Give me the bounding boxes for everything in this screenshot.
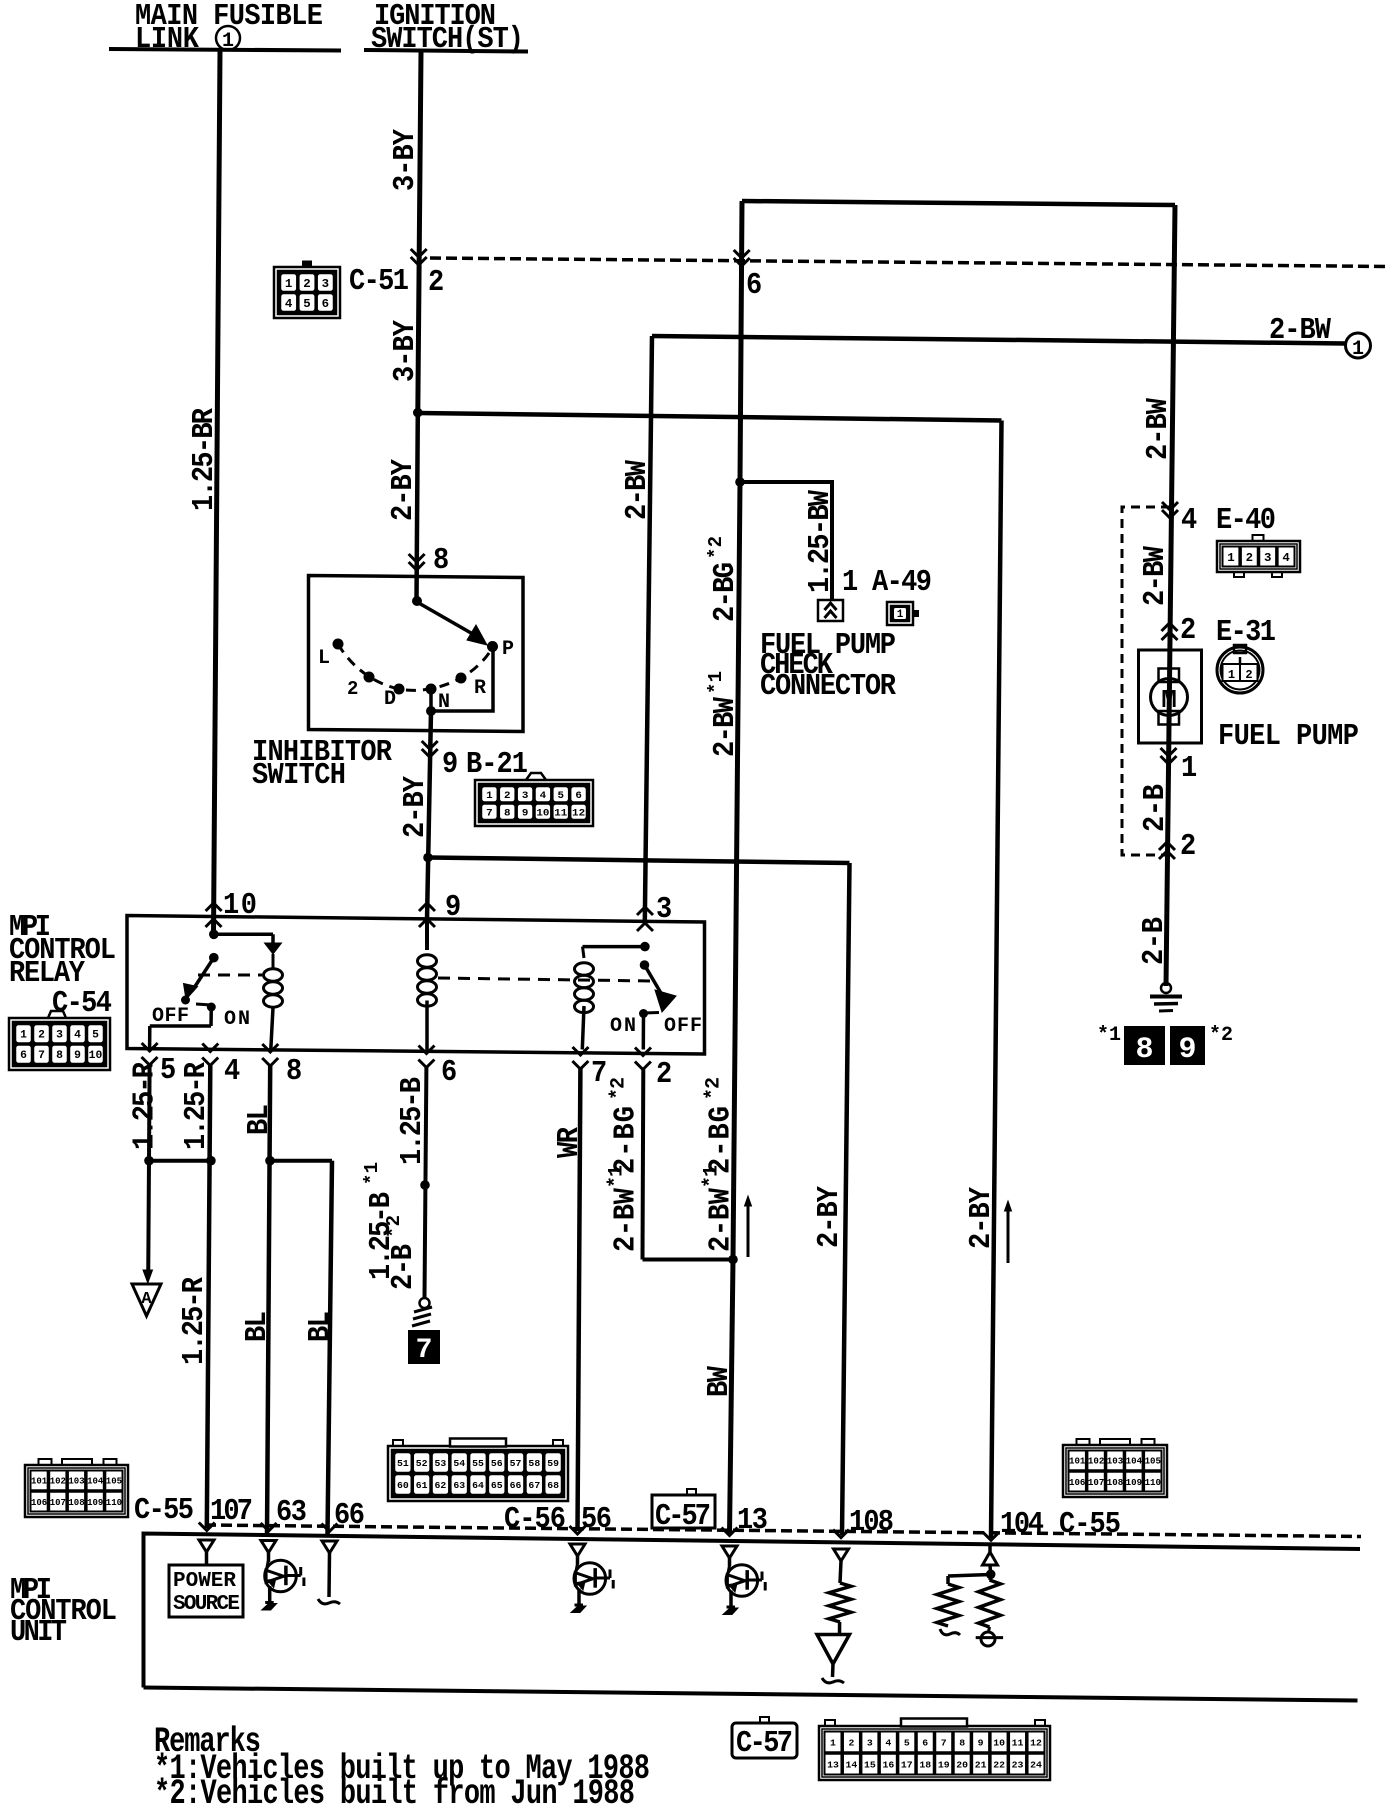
svg-text:8: 8 bbox=[433, 543, 449, 578]
inhibitor contact 2 bbox=[364, 672, 375, 683]
svg-text:2-BG: 2-BG bbox=[703, 1106, 738, 1174]
wire 108 comparator out bbox=[831, 1664, 835, 1677]
ECU resistor at 108 bbox=[829, 1583, 851, 1622]
dashed ECU boundary line bbox=[205, 1525, 1361, 1537]
terminal 1 circled bbox=[1346, 333, 1371, 358]
grounding point 9 black box bbox=[1170, 1026, 1205, 1065]
connector E-31 icon bbox=[1217, 647, 1263, 693]
svg-text:68: 68 bbox=[547, 1480, 559, 1491]
svg-text:1: 1 bbox=[830, 1737, 836, 1748]
svg-text:2-BW: 2-BW bbox=[1269, 313, 1332, 348]
ECU input triangle 13 bbox=[722, 1546, 737, 1558]
node relay switch1 common bbox=[209, 953, 219, 963]
svg-text:107: 107 bbox=[50, 1498, 66, 1508]
dashed fuel pump assembly boundary bbox=[1122, 507, 1170, 855]
svg-text:2: 2 bbox=[656, 1057, 672, 1092]
svg-text:108: 108 bbox=[1107, 1478, 1123, 1488]
relay linkage dashed left bbox=[198, 974, 262, 977]
svg-text:2-B: 2-B bbox=[386, 1244, 421, 1290]
svg-text:5: 5 bbox=[557, 790, 564, 802]
svg-text:SOURCE: SOURCE bbox=[173, 1593, 240, 1616]
inhibitor switch common pivot bbox=[412, 596, 422, 606]
svg-text:105: 105 bbox=[106, 1477, 122, 1487]
ECU 108 hook bbox=[822, 1678, 844, 1683]
svg-text:12: 12 bbox=[572, 808, 585, 820]
wire BW main drop (pin 6 of C-51 to ECU pin 13) bbox=[730, 201, 743, 1534]
svg-text:E-40: E-40 bbox=[1216, 503, 1276, 538]
wire 1.25-B pin 6 to ground 7 bbox=[425, 1068, 427, 1299]
wire 66 stub bbox=[327, 1553, 331, 1597]
wire fuel pump feed vertical bbox=[1166, 205, 1175, 986]
svg-text:1: 1 bbox=[285, 277, 292, 291]
ECU transistor at 63 bbox=[265, 1560, 297, 1592]
svg-text:*2: *2 bbox=[702, 1077, 725, 1100]
svg-text:10: 10 bbox=[223, 888, 257, 923]
inhibitor contact R bbox=[456, 673, 467, 684]
svg-text:19: 19 bbox=[938, 1760, 950, 1771]
svg-text:59: 59 bbox=[547, 1458, 559, 1469]
svg-text:*1: *1 bbox=[361, 1162, 383, 1185]
svg-text:107: 107 bbox=[210, 1494, 253, 1529]
wire 1.25-BR from main fusible link to relay pin 10 bbox=[214, 51, 221, 934]
svg-text:2-BG: 2-BG bbox=[708, 562, 743, 622]
svg-text:2: 2 bbox=[428, 265, 444, 300]
inhibitor contact L bbox=[333, 639, 344, 650]
svg-text:14: 14 bbox=[846, 1760, 858, 1771]
svg-text:*2:Vehicles built from Jun 198: *2:Vehicles built from Jun 1988 bbox=[154, 1775, 635, 1808]
svg-text:2-BW: 2-BW bbox=[1138, 545, 1173, 606]
wire 1.25-R pin 4 to ECU 107 bbox=[207, 1066, 211, 1529]
svg-text:1.25-R: 1.25-R bbox=[179, 1061, 214, 1150]
wire BL pin 8 to ECU 63 bbox=[267, 1066, 270, 1534]
svg-text:6: 6 bbox=[322, 297, 329, 311]
MPI control relay box bbox=[127, 916, 705, 1055]
svg-text:A: A bbox=[141, 1290, 152, 1309]
relay suppression diode bbox=[265, 943, 282, 954]
svg-text:18: 18 bbox=[919, 1760, 931, 1771]
svg-text:9: 9 bbox=[442, 747, 458, 782]
svg-text:4: 4 bbox=[285, 297, 292, 311]
node junction ignition/2-BY bbox=[413, 408, 423, 418]
relay coil centre (pins 9-6) bbox=[425, 920, 429, 950]
ground 7 terminal circle bbox=[420, 1298, 430, 1308]
node relay junction pin3 bbox=[640, 942, 650, 952]
connector C-51 pass-through arrow pin 2 bbox=[411, 249, 427, 257]
arrow ECU pin 56 bbox=[570, 1526, 586, 1534]
svg-text:57: 57 bbox=[510, 1458, 522, 1469]
svg-text:BL: BL bbox=[242, 1104, 277, 1135]
svg-text:2-BW: 2-BW bbox=[708, 696, 743, 757]
svg-text:1: 1 bbox=[1352, 338, 1364, 361]
svg-text:103: 103 bbox=[1107, 1457, 1123, 1467]
arrow relay pin 7 bbox=[573, 1047, 589, 1055]
ground arrow into triangle A bbox=[143, 1270, 153, 1283]
arrow ECU pin 104 bbox=[983, 1532, 999, 1540]
connector C-57 24-pin icon bbox=[819, 1726, 1050, 1780]
svg-text:24: 24 bbox=[1030, 1760, 1042, 1771]
wire link pins 5-4 bbox=[149, 1159, 211, 1163]
svg-text:108: 108 bbox=[68, 1498, 84, 1508]
svg-text:3: 3 bbox=[867, 1737, 873, 1748]
wire bridge above dashed boundary bbox=[742, 201, 1175, 205]
connector E-40 icon bbox=[1217, 541, 1300, 572]
wire 108 resistor to comparator bbox=[838, 1622, 842, 1635]
svg-text:2: 2 bbox=[848, 1737, 854, 1748]
svg-text:22: 22 bbox=[993, 1760, 1005, 1771]
svg-text:60: 60 bbox=[397, 1480, 409, 1491]
node junction pin5/pin4 link bbox=[144, 1156, 154, 1166]
node junction pin2/BW bbox=[728, 1255, 738, 1265]
svg-text:2: 2 bbox=[303, 277, 310, 291]
fuel pump check connector terminal bbox=[818, 600, 843, 621]
svg-text:2-BY: 2-BY bbox=[398, 775, 433, 838]
svg-text:8: 8 bbox=[286, 1054, 302, 1089]
svg-text:105: 105 bbox=[1145, 1457, 1161, 1467]
svg-text:POWER: POWER bbox=[173, 1570, 236, 1593]
svg-text:51: 51 bbox=[397, 1458, 409, 1469]
svg-text:55: 55 bbox=[472, 1458, 484, 1469]
svg-text:C-56: C-56 bbox=[504, 1502, 566, 1537]
arrow relay pin 10 bbox=[206, 903, 222, 911]
svg-text:101: 101 bbox=[1069, 1457, 1086, 1467]
inhibitor contact N bbox=[426, 684, 437, 695]
svg-text:104: 104 bbox=[87, 1477, 104, 1487]
svg-text:OFF: OFF bbox=[664, 1015, 702, 1038]
svg-text:1: 1 bbox=[897, 609, 904, 621]
svg-text:5: 5 bbox=[303, 297, 310, 311]
relay coil left (pins 10-8) bbox=[264, 969, 283, 981]
ECU 66 hook bbox=[318, 1599, 340, 1604]
svg-text:2-BG: 2-BG bbox=[608, 1106, 643, 1174]
svg-text:3-BY: 3-BY bbox=[388, 319, 423, 382]
arrow ECU pin 13 bbox=[722, 1528, 738, 1536]
svg-text:8: 8 bbox=[56, 1050, 63, 1062]
relay switch1 ON contact bbox=[207, 1003, 216, 1012]
svg-text:4: 4 bbox=[224, 1054, 240, 1089]
svg-text:*1: *1 bbox=[1097, 1024, 1121, 1047]
arrow at pump boundary pin 2 bbox=[1159, 851, 1175, 859]
svg-text:6: 6 bbox=[441, 1055, 457, 1090]
node junction 2-BY / horizontal to 108 bbox=[423, 853, 433, 863]
svg-text:52: 52 bbox=[416, 1458, 428, 1469]
svg-text:BL: BL bbox=[240, 1311, 275, 1342]
svg-text:3: 3 bbox=[656, 892, 672, 927]
svg-text:BW: BW bbox=[702, 1365, 737, 1397]
svg-text:C-51: C-51 bbox=[349, 264, 409, 299]
svg-text:104: 104 bbox=[1126, 1457, 1143, 1467]
wire 104 resistor to sensor circle bbox=[989, 1627, 990, 1632]
svg-text:11: 11 bbox=[1012, 1737, 1024, 1748]
arrow relay pin 6 bbox=[419, 1046, 435, 1054]
svg-text:61: 61 bbox=[416, 1480, 428, 1491]
svg-text:65: 65 bbox=[491, 1480, 503, 1491]
svg-text:66: 66 bbox=[334, 1498, 365, 1533]
svg-text:2: 2 bbox=[504, 790, 511, 802]
node: main fusible link number 1 circled bbox=[216, 26, 240, 50]
ECU resistor at 104 bbox=[988, 1574, 992, 1580]
svg-text:ON: ON bbox=[224, 1008, 250, 1031]
ECU output triangle 104 bbox=[988, 1545, 992, 1552]
svg-text:SWITCH: SWITCH bbox=[252, 758, 346, 793]
inhibitor switch blade to P bbox=[417, 602, 478, 637]
wire switch2 ON to pin 2 bbox=[642, 1014, 646, 1050]
svg-text:ON: ON bbox=[610, 1015, 636, 1038]
wire branch to fuel pump check connector bbox=[740, 482, 832, 600]
wire pin3 junction to coil right bbox=[583, 945, 645, 949]
svg-text:*2: *2 bbox=[607, 1077, 630, 1100]
svg-text:D: D bbox=[384, 688, 396, 711]
svg-text:2-BY: 2-BY bbox=[964, 1186, 999, 1249]
node junction pin4 link bbox=[206, 1156, 216, 1166]
svg-text:16: 16 bbox=[882, 1760, 894, 1771]
svg-text:1: 1 bbox=[1181, 751, 1197, 786]
svg-text:4: 4 bbox=[1181, 503, 1197, 538]
svg-text:109: 109 bbox=[87, 1498, 103, 1508]
wire 108 to resistor bbox=[840, 1561, 841, 1583]
wire 2-BY vertical drop to ECU pin 104 bbox=[991, 421, 1002, 1539]
svg-text:106: 106 bbox=[1069, 1478, 1085, 1488]
wire 2-BY inhibitor to relay pin 9 bbox=[427, 711, 431, 920]
wire 3-BY ignition switch to junction bbox=[418, 52, 421, 413]
svg-text:15: 15 bbox=[864, 1760, 876, 1771]
wire N contact to output bbox=[429, 688, 433, 711]
relay coil right (pins 3-7) bbox=[575, 963, 594, 975]
svg-text:106: 106 bbox=[31, 1498, 47, 1508]
svg-text:1: 1 bbox=[842, 565, 858, 600]
svg-text:107: 107 bbox=[1088, 1478, 1104, 1488]
svg-text:5: 5 bbox=[92, 1030, 99, 1042]
svg-text:9: 9 bbox=[522, 808, 529, 820]
arrow out of pump pin 1 bbox=[1161, 748, 1177, 756]
svg-text:17: 17 bbox=[901, 1760, 913, 1771]
svg-text:11: 11 bbox=[554, 808, 567, 820]
arrow relay pin 8 bbox=[262, 1044, 278, 1052]
svg-text:13: 13 bbox=[827, 1760, 839, 1771]
arrow ECU pin 108 bbox=[833, 1530, 849, 1538]
direction arrow on BW wire bbox=[747, 1205, 750, 1257]
svg-text:WR: WR bbox=[552, 1126, 587, 1158]
svg-text:3: 3 bbox=[1264, 551, 1271, 565]
svg-text:FUEL PUMP: FUEL PUMP bbox=[1218, 719, 1359, 754]
bus bar under MAIN FUSIBLE LINK bbox=[109, 49, 341, 51]
svg-text:20: 20 bbox=[956, 1760, 968, 1771]
ECU resistor left of 104 bbox=[946, 1576, 950, 1584]
svg-text:63: 63 bbox=[453, 1480, 465, 1491]
svg-text:4: 4 bbox=[885, 1737, 891, 1748]
ECU comparator triangle 108 bbox=[817, 1635, 850, 1665]
svg-text:CONNECTOR: CONNECTOR bbox=[760, 669, 897, 704]
wire 107 to power source bbox=[205, 1552, 209, 1565]
direction arrow on 104 wire bbox=[1007, 1210, 1010, 1263]
fuel pump motor box bbox=[1139, 650, 1202, 743]
ECU transistor at 13 bbox=[726, 1565, 758, 1597]
arrow relay pin 9 bbox=[419, 903, 435, 911]
svg-text:101: 101 bbox=[31, 1477, 48, 1487]
wire 2-BY junction to inhibitor switch bbox=[417, 413, 418, 601]
wire BL branch to ECU 66 bbox=[328, 1161, 333, 1534]
svg-text:110: 110 bbox=[1145, 1478, 1161, 1488]
svg-text:2-B: 2-B bbox=[1138, 784, 1173, 832]
arrow into pump assembly pin 4 bbox=[1162, 502, 1178, 510]
svg-text:10: 10 bbox=[89, 1050, 103, 1062]
svg-text:54: 54 bbox=[453, 1458, 465, 1469]
relay switch1 OFF contact bbox=[181, 996, 190, 1005]
svg-text:A-49: A-49 bbox=[872, 565, 932, 600]
svg-text:*1: *1 bbox=[700, 1165, 723, 1188]
svg-text:110: 110 bbox=[106, 1498, 122, 1508]
svg-text:56: 56 bbox=[491, 1458, 503, 1469]
svg-text:3: 3 bbox=[522, 790, 529, 802]
svg-text:64: 64 bbox=[472, 1480, 484, 1491]
wire ON contact to pins 4/5 link bbox=[209, 1007, 213, 1026]
svg-text:L: L bbox=[318, 647, 330, 670]
svg-text:7: 7 bbox=[486, 808, 493, 820]
svg-text:7: 7 bbox=[941, 1737, 947, 1748]
svg-text:2: 2 bbox=[1180, 829, 1196, 864]
svg-text:10: 10 bbox=[993, 1737, 1005, 1748]
connector C-57 label box top bbox=[652, 1495, 715, 1528]
svg-text:1.25-R: 1.25-R bbox=[127, 1061, 162, 1150]
svg-text:66: 66 bbox=[510, 1480, 522, 1491]
svg-text:1.25-BR: 1.25-BR bbox=[187, 407, 222, 511]
inhibitor contact D bbox=[394, 684, 405, 695]
arrow relay pin 3 bbox=[637, 907, 653, 915]
fuel pump motor M circle bbox=[1151, 679, 1188, 716]
svg-text:8: 8 bbox=[504, 808, 511, 820]
arrow entering inhibitor switch pin 8 bbox=[409, 554, 425, 562]
bus bar under IGNITION SWITCH(ST) bbox=[364, 50, 528, 52]
svg-text:63: 63 bbox=[276, 1495, 307, 1530]
svg-text:108: 108 bbox=[849, 1505, 894, 1540]
svg-text:9: 9 bbox=[445, 890, 461, 925]
connector C-51 icon bbox=[274, 267, 340, 318]
wire WR pin 7 to ECU 56 bbox=[578, 1069, 581, 1531]
svg-text:1.25-BW: 1.25-BW bbox=[803, 489, 838, 593]
wire 2-BY vertical drop to ECU pin 108 bbox=[842, 863, 850, 1535]
svg-text:13: 13 bbox=[737, 1503, 768, 1538]
wire pin 2 down and over to BW bbox=[641, 1070, 646, 1260]
svg-text:9: 9 bbox=[1178, 1033, 1196, 1067]
ECU input triangle 108 bbox=[834, 1549, 849, 1561]
svg-text:3: 3 bbox=[322, 277, 329, 291]
relay switch2 blade bbox=[645, 965, 666, 1000]
connector C-57 label box bottom bbox=[732, 1723, 797, 1758]
POWER SOURCE box bbox=[169, 1565, 243, 1617]
svg-text:2: 2 bbox=[347, 678, 358, 700]
node junction 1.25-B labels bbox=[420, 1180, 430, 1190]
ECU input triangle 107 bbox=[199, 1540, 214, 1552]
svg-text:*2: *2 bbox=[705, 536, 727, 559]
svg-text:109: 109 bbox=[1126, 1478, 1142, 1488]
node relay switch2 common bbox=[640, 960, 650, 970]
svg-text:5: 5 bbox=[160, 1053, 176, 1088]
dashed firewall boundary line upper bbox=[430, 258, 1390, 267]
svg-text:12: 12 bbox=[1030, 1737, 1042, 1748]
wire 104 to junction bbox=[988, 1566, 992, 1575]
svg-text:1.25-R: 1.25-R bbox=[177, 1276, 212, 1365]
svg-text:4: 4 bbox=[540, 790, 547, 802]
svg-text:58: 58 bbox=[528, 1458, 540, 1469]
arrow relay pin 5 bbox=[142, 1043, 158, 1051]
svg-text:6: 6 bbox=[746, 268, 762, 303]
wire ECU junction to pullup bbox=[948, 1575, 991, 1577]
svg-text:53: 53 bbox=[435, 1458, 447, 1469]
connector B-21 icon bbox=[475, 780, 593, 826]
node junction check connector branch bbox=[735, 477, 745, 487]
svg-text:C-55: C-55 bbox=[134, 1493, 194, 1528]
svg-text:6: 6 bbox=[20, 1050, 27, 1062]
svg-text:*2: *2 bbox=[1209, 1024, 1233, 1047]
wire 13 to transistor bbox=[728, 1558, 732, 1566]
svg-text:3-BY: 3-BY bbox=[388, 128, 423, 191]
svg-text:C-55: C-55 bbox=[1059, 1507, 1121, 1542]
svg-text:1: 1 bbox=[20, 1030, 27, 1042]
ground triangle A symbol bbox=[132, 1284, 161, 1316]
wire 2-BY horizontal to 104 drop bbox=[418, 413, 1002, 421]
svg-text:*1: *1 bbox=[705, 671, 727, 694]
svg-text:2: 2 bbox=[1246, 551, 1253, 565]
wire BL branch link bbox=[270, 1159, 332, 1163]
connector A-49 icon bbox=[887, 602, 913, 625]
svg-text:21: 21 bbox=[975, 1760, 987, 1771]
svg-text:2-BW: 2-BW bbox=[620, 459, 655, 520]
svg-text:1: 1 bbox=[486, 790, 493, 802]
fuel pump motor brush upper bbox=[1159, 669, 1180, 683]
ECU input triangle 56 bbox=[570, 1544, 585, 1556]
node relay junction pin10 top bbox=[209, 930, 219, 940]
svg-text:9: 9 bbox=[74, 1050, 81, 1062]
svg-text:*2: *2 bbox=[383, 1215, 405, 1238]
svg-text:2-BW: 2-BW bbox=[703, 1187, 738, 1252]
relay switch2 ON contact bbox=[639, 1009, 648, 1018]
svg-text:2: 2 bbox=[1180, 613, 1196, 648]
ECU input triangle 63 bbox=[261, 1541, 276, 1553]
svg-text:C-54: C-54 bbox=[52, 986, 112, 1021]
wire relay pin10 to diode branch bbox=[214, 933, 273, 937]
node junction at N output bbox=[426, 706, 436, 716]
wire 63 to transistor bbox=[267, 1553, 271, 1563]
svg-text:UNIT: UNIT bbox=[10, 1615, 67, 1650]
ground symbol fuel pump bbox=[1161, 983, 1171, 993]
fuel pump motor brush lower bbox=[1159, 711, 1180, 725]
svg-text:*1: *1 bbox=[605, 1165, 628, 1188]
wire 56 to transistor bbox=[576, 1556, 580, 1564]
svg-text:102: 102 bbox=[50, 1477, 66, 1487]
svg-text:7: 7 bbox=[416, 1335, 433, 1366]
svg-text:1.25-B: 1.25-B bbox=[395, 1077, 430, 1165]
arrow at dashed boundary pin 6 bbox=[734, 250, 750, 258]
node ECU 104 junction bbox=[986, 1570, 996, 1580]
MPI control unit box bbox=[144, 1534, 1361, 1688]
ECU transistor at 56 bbox=[574, 1563, 606, 1595]
svg-text:4: 4 bbox=[1282, 551, 1289, 565]
svg-text:7: 7 bbox=[591, 1056, 607, 1091]
svg-text:3: 3 bbox=[56, 1030, 63, 1042]
wire 1.25-R pin 5 bbox=[147, 1065, 152, 1161]
connector C-54 icon bbox=[9, 1018, 110, 1070]
grounding point 7 black box bbox=[408, 1330, 440, 1364]
svg-text:8: 8 bbox=[1135, 1033, 1153, 1067]
svg-text:103: 103 bbox=[68, 1477, 84, 1487]
svg-text:5: 5 bbox=[904, 1737, 910, 1748]
arrow relay pin 2 bbox=[635, 1048, 651, 1056]
wire 2-BW to terminal 1 bbox=[652, 336, 1346, 344]
node junction BL branch bbox=[265, 1156, 275, 1166]
svg-text:C-57: C-57 bbox=[655, 1499, 711, 1534]
inhibitor switch box bbox=[309, 576, 524, 732]
svg-text:2: 2 bbox=[1245, 668, 1252, 682]
arrow relay pin 4 bbox=[202, 1044, 218, 1052]
